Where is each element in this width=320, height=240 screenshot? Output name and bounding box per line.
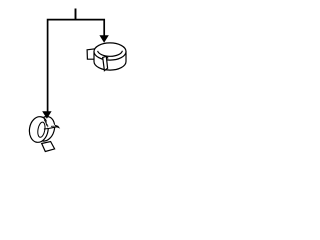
arrowhead to top-right icon — [99, 35, 108, 42]
outer rim ellipse — [94, 43, 126, 60]
cylinder body — [94, 52, 126, 71]
front flap — [103, 56, 108, 70]
wire: top stub — [75, 9, 77, 20]
tape flap fill — [44, 118, 57, 129]
far rim — [33, 114, 57, 143]
tab on left — [87, 49, 95, 59]
arrowhead to bottom-left icon — [42, 111, 51, 119]
bottom-left icon: tape roll standing on base — [28, 114, 61, 151]
flap fold line — [51, 125, 55, 127]
flap fold — [106, 57, 108, 59]
near face — [28, 115, 50, 143]
top-right icon: tape roll lying flat — [87, 43, 126, 71]
wire: T connector (left drop, horizontal bar, right drop) — [48, 20, 105, 112]
inner opening — [98, 51, 123, 57]
base — [42, 142, 55, 152]
hole — [37, 122, 46, 138]
flap tip — [55, 125, 61, 129]
tape inner edge — [44, 119, 47, 125]
flap bottom edge — [44, 127, 57, 129]
